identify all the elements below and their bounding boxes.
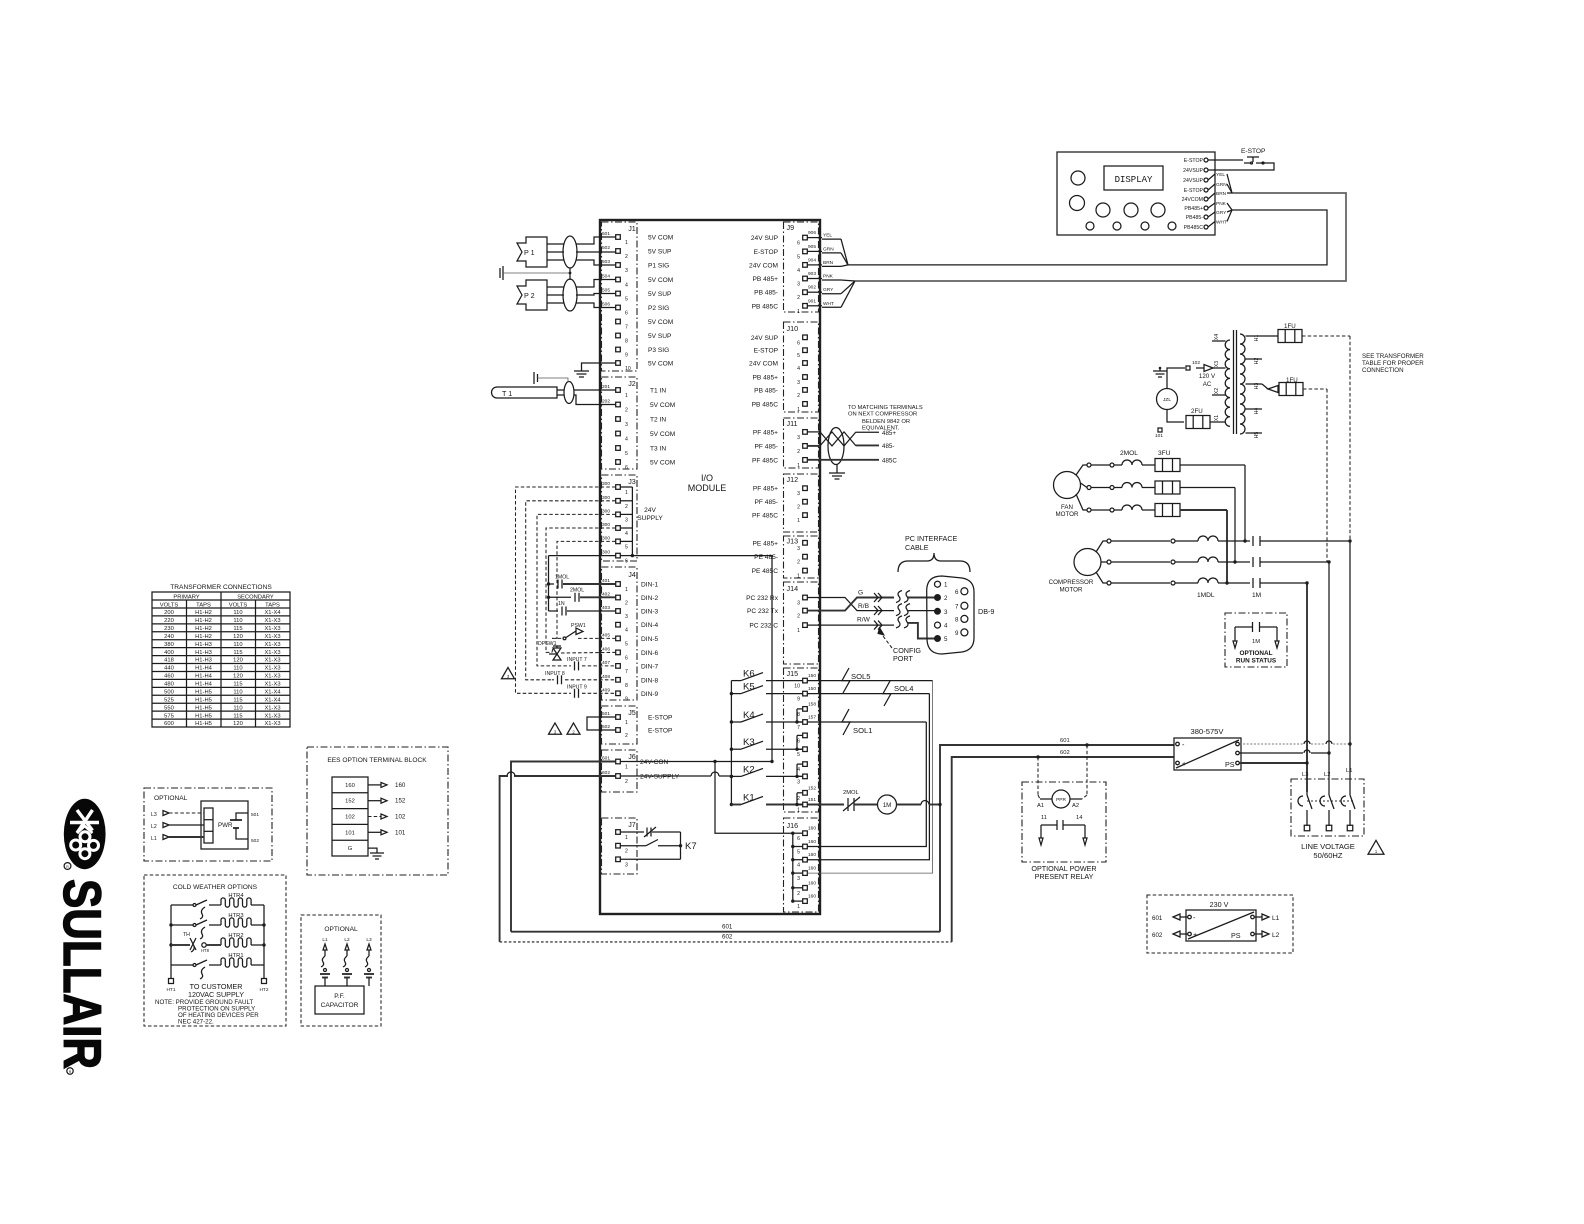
wire 602 from J6-2 (left drop) — [514, 775, 616, 777]
connector J14 — [784, 582, 819, 664]
svg-text:X1-X4: X1-X4 — [264, 697, 281, 703]
PS output to L1 — [1240, 743, 1304, 745]
svg-text:OPTIONAL: OPTIONAL — [154, 795, 188, 802]
wire 601 from J6-1 (left drop) — [511, 762, 616, 932]
svg-text:160: 160 — [808, 839, 816, 845]
svg-text:6: 6 — [797, 836, 800, 842]
svg-text:2: 2 — [797, 891, 800, 897]
svg-text:230 V: 230 V — [1210, 900, 1229, 909]
connector J6 — [602, 750, 638, 792]
svg-text:501: 501 — [251, 812, 259, 818]
svg-text:CAPACITOR: CAPACITOR — [321, 1002, 359, 1009]
svg-text:X1: X1 — [1214, 415, 1220, 421]
temperature probe T1 — [492, 387, 557, 398]
svg-text:DIN-2: DIN-2 — [641, 595, 659, 602]
svg-text:PE 485+: PE 485+ — [753, 540, 779, 547]
svg-text:PS: PS — [1231, 931, 1241, 940]
connector J7 — [602, 818, 638, 874]
emblem registered mark — [64, 863, 71, 870]
svg-text:TABLE FOR PROPER: TABLE FOR PROPER — [1362, 360, 1424, 367]
svg-text:L2: L2 — [151, 824, 157, 830]
svg-text:220: 220 — [164, 618, 174, 624]
svg-text:INPUT 7: INPUT 7 — [567, 657, 587, 663]
svg-text:PF 485C: PF 485C — [752, 457, 778, 464]
svg-text:160: 160 — [808, 826, 816, 832]
svg-text:J2: J2 — [628, 379, 636, 388]
svg-text:2: 2 — [797, 449, 800, 455]
svg-text:150: 150 — [808, 673, 816, 679]
svg-text:PPR: PPR — [1056, 797, 1066, 803]
connector J13 — [784, 536, 819, 578]
line voltage box — [1291, 779, 1364, 836]
svg-text:1FU: 1FU — [1286, 377, 1298, 384]
svg-text:SUPPLY: SUPPLY — [637, 515, 663, 522]
svg-text:2: 2 — [625, 408, 628, 414]
svg-text:J4: J4 — [628, 570, 636, 579]
svg-text:24V-CON: 24V-CON — [640, 759, 668, 766]
svg-text:E-STOP: E-STOP — [648, 715, 673, 722]
svg-text:X1-X4: X1-X4 — [264, 610, 281, 616]
svg-text:408: 408 — [602, 674, 610, 680]
wires P2 to J1 pins 4-6 — [576, 280, 616, 288]
transformer secondary winding (X) — [1225, 340, 1230, 426]
svg-text:PNK: PNK — [1216, 201, 1227, 207]
PWR capacitor — [230, 819, 242, 821]
svg-text:10: 10 — [625, 366, 631, 372]
svg-text:5: 5 — [797, 850, 800, 856]
svg-text:PRIMARY: PRIMARY — [173, 595, 199, 601]
svg-text:7: 7 — [625, 669, 628, 675]
svg-text:110: 110 — [233, 618, 242, 624]
svg-text:L1: L1 — [151, 836, 157, 842]
svg-text:24VSUP: 24VSUP — [1183, 178, 1203, 184]
svg-text:TAPS: TAPS — [196, 603, 211, 609]
svg-text:300: 300 — [602, 522, 610, 528]
svg-text:2: 2 — [944, 595, 948, 602]
PF capacitor block — [315, 986, 364, 1014]
svg-text:DIN-5: DIN-5 — [641, 636, 659, 643]
svg-text:DB-9: DB-9 — [978, 607, 994, 616]
svg-text:6: 6 — [625, 655, 628, 661]
shield ground — [836, 465, 838, 474]
svg-text:PORT: PORT — [893, 654, 913, 663]
svg-text:H1-H2: H1-H2 — [195, 626, 212, 632]
svg-text:9: 9 — [625, 353, 628, 359]
svg-text:K3: K3 — [743, 737, 755, 748]
svg-text:905: 905 — [808, 244, 816, 250]
svg-text:4: 4 — [625, 283, 628, 289]
svg-text:P1 SIG: P1 SIG — [648, 263, 669, 270]
contact 1M (DIN-3) — [549, 610, 559, 612]
svg-text:2MOL: 2MOL — [1120, 450, 1138, 457]
run status contact 1M — [1235, 626, 1253, 628]
svg-text:PF 485+: PF 485+ — [753, 429, 778, 436]
svg-text:TAPS: TAPS — [265, 603, 280, 609]
phase L3 drop — [1306, 583, 1308, 792]
svg-text:7: 7 — [625, 325, 628, 331]
svg-text:PF 485-: PF 485- — [755, 443, 778, 450]
svg-text:485C: 485C — [882, 458, 897, 465]
svg-text:X1-X3: X1-X3 — [264, 642, 280, 648]
svg-text:1: 1 — [625, 240, 628, 246]
svg-text:2: 2 — [625, 733, 628, 739]
contact 2MOL (K1 circuit) — [808, 804, 845, 806]
wire 601 bottom rail — [511, 931, 940, 933]
svg-text:DIN-8: DIN-8 — [641, 677, 659, 684]
wire to DB9 pin3 — [908, 610, 938, 612]
svg-text:101: 101 — [1155, 433, 1163, 439]
svg-text:9: 9 — [955, 630, 959, 637]
svg-text:P2 SIG: P2 SIG — [648, 305, 669, 312]
wire 601 right riser to PS — [940, 745, 1174, 932]
svg-text:4: 4 — [625, 437, 628, 443]
svg-text:380-575V: 380-575V — [1191, 727, 1225, 736]
svg-text:230: 230 — [164, 626, 174, 632]
svg-text:1: 1 — [797, 463, 800, 469]
PS output to L2 — [1240, 752, 1304, 754]
svg-text:H1-H3: H1-H3 — [195, 642, 212, 648]
svg-text:J13: J13 — [787, 537, 799, 546]
svg-text:GRY: GRY — [823, 287, 834, 293]
PPR coil — [1052, 790, 1070, 808]
wire J3-6 left to input contact bus — [549, 555, 616, 557]
svg-text:R/W: R/W — [857, 617, 871, 624]
svg-text:1MOL: 1MOL — [555, 575, 569, 581]
svg-text:X1-X3: X1-X3 — [264, 682, 280, 688]
svg-text:120 V: 120 V — [1199, 373, 1216, 380]
svg-text:H2: H2 — [1254, 358, 1260, 365]
display cable bundle A — [848, 210, 1327, 265]
wires P1 to J1 pins 1-3 — [576, 237, 616, 244]
svg-text:5V SUP: 5V SUP — [648, 249, 672, 256]
wire 485C — [808, 459, 880, 461]
compressor motor leads — [1096, 541, 1107, 552]
svg-text:1: 1 — [797, 628, 800, 634]
fuse 2FU — [1167, 410, 1184, 423]
svg-text:CONNECTION: CONNECTION — [1362, 367, 1404, 374]
svg-text:E-STOP: E-STOP — [754, 348, 779, 355]
svg-text:5V COM: 5V COM — [650, 402, 675, 409]
svg-text:202: 202 — [602, 399, 610, 405]
svg-text:PB485-: PB485- — [1186, 215, 1204, 221]
svg-text:NEC 427-22.: NEC 427-22. — [178, 1019, 214, 1026]
svg-text:152: 152 — [808, 785, 816, 791]
svg-text:120: 120 — [233, 721, 243, 727]
svg-text:902: 902 — [808, 285, 816, 291]
svg-text:J6: J6 — [628, 752, 636, 761]
svg-text:11: 11 — [1041, 815, 1047, 821]
svg-text:H1-H5: H1-H5 — [195, 713, 212, 719]
svg-text:504: 504 — [602, 274, 610, 280]
svg-text:HT2: HT2 — [259, 987, 268, 993]
svg-text:LINE VOLTAGE: LINE VOLTAGE — [1301, 842, 1355, 851]
solenoid SOL1 — [808, 721, 927, 723]
relay contact K7 — [621, 831, 645, 833]
svg-text:6: 6 — [797, 241, 800, 247]
PPR box — [1022, 782, 1106, 862]
svg-text:PB 485-: PB 485- — [754, 290, 778, 297]
svg-text:1: 1 — [797, 407, 800, 413]
svg-text:H1-H2: H1-H2 — [195, 618, 212, 624]
svg-text:3: 3 — [625, 268, 628, 274]
fan motor — [1054, 472, 1081, 499]
svg-text:101: 101 — [345, 830, 355, 836]
svg-text:240: 240 — [164, 634, 174, 640]
svg-text:E-STOP: E-STOP — [648, 728, 673, 735]
svg-text:J12: J12 — [787, 475, 799, 484]
PWR module — [201, 801, 248, 849]
svg-text:151: 151 — [808, 797, 816, 803]
svg-text:115: 115 — [233, 713, 242, 719]
HT2 terminal — [263, 965, 265, 979]
svg-text:5: 5 — [625, 544, 628, 550]
svg-text:CABLE: CABLE — [905, 543, 929, 552]
svg-text:HT1: HT1 — [166, 987, 175, 993]
svg-text:525: 525 — [164, 697, 174, 703]
svg-text:1: 1 — [625, 720, 628, 726]
svg-text:115: 115 — [233, 682, 242, 688]
DB9 connector outline — [927, 576, 974, 654]
svg-text:5V SUP: 5V SUP — [648, 333, 672, 340]
svg-text:SOL1: SOL1 — [853, 726, 872, 735]
svg-text:1: 1 — [625, 393, 628, 399]
display panel box — [1057, 152, 1215, 235]
svg-text:4: 4 — [625, 628, 628, 634]
svg-text:PC 232 Rx: PC 232 Rx — [746, 595, 779, 602]
svg-text:3: 3 — [944, 609, 948, 616]
svg-text:480: 480 — [164, 682, 174, 688]
svg-text:506: 506 — [602, 302, 610, 308]
svg-text:904: 904 — [808, 257, 816, 263]
svg-text:PB 485+: PB 485+ — [753, 375, 779, 382]
svg-text:SOL5: SOL5 — [851, 672, 870, 681]
svg-text:102: 102 — [345, 815, 355, 821]
svg-text:300: 300 — [602, 481, 610, 487]
svg-text:L3: L3 — [1302, 772, 1308, 778]
svg-text:9: 9 — [797, 697, 800, 703]
svg-text:INPUT 9: INPUT 9 — [567, 685, 587, 691]
svg-text:OPTIONAL: OPTIONAL — [324, 926, 358, 933]
svg-text:G: G — [858, 590, 863, 597]
svg-text:GRN: GRN — [1216, 182, 1227, 188]
solenoid SOL5 — [808, 680, 933, 682]
warning triangle 3 (J5) — [549, 723, 562, 734]
svg-text:550: 550 — [164, 705, 174, 711]
svg-text:2: 2 — [797, 295, 800, 301]
EES option box — [307, 747, 448, 875]
cable brace — [898, 553, 970, 572]
svg-text:TRANSFORMER CONNECTIONS: TRANSFORMER CONNECTIONS — [170, 584, 272, 591]
svg-text:TH: TH — [183, 932, 190, 938]
J11 twisted pair to next compressor — [808, 431, 821, 433]
svg-text:G: G — [348, 846, 353, 852]
SOL1 return wire — [808, 722, 927, 847]
svg-text:5: 5 — [797, 752, 800, 758]
svg-text:505: 505 — [602, 288, 610, 294]
svg-text:PB 485+: PB 485+ — [753, 276, 779, 283]
connector J11 — [784, 418, 819, 468]
svg-text:3: 3 — [797, 435, 800, 441]
svg-text:1N: 1N — [558, 601, 565, 607]
svg-text:J5: J5 — [628, 708, 636, 717]
svg-text:JZL: JZL — [1163, 397, 1171, 403]
svg-text:1: 1 — [625, 835, 628, 841]
line voltage disconnect switches — [1306, 792, 1308, 795]
wire 24V-SUPPLY J6-2 to K bus — [621, 775, 712, 777]
svg-text:K5: K5 — [743, 682, 755, 693]
wire JZL to X3 with 102 — [1167, 368, 1185, 389]
svg-text:8: 8 — [955, 616, 959, 623]
svg-text:4: 4 — [797, 268, 800, 274]
connector J4 — [602, 567, 638, 700]
svg-text:P 1: P 1 — [524, 248, 535, 257]
overload 1MDL — [1111, 540, 1170, 542]
dashed drop 1FU to L2 — [1326, 389, 1328, 562]
svg-text:120VAC SUPPLY: 120VAC SUPPLY — [188, 990, 244, 999]
svg-text:2: 2 — [797, 393, 800, 399]
svg-text:500: 500 — [164, 689, 174, 695]
HT1 terminal — [170, 965, 172, 979]
230V option box — [1147, 895, 1293, 953]
wire J3-6 to J6-1 (24V to con) — [632, 556, 772, 762]
svg-text:L2: L2 — [1272, 932, 1280, 939]
optional run status box — [1225, 613, 1287, 667]
svg-text:DIN-7: DIN-7 — [641, 663, 659, 670]
svg-text:X1-X3: X1-X3 — [264, 666, 280, 672]
svg-text:602: 602 — [1152, 932, 1163, 939]
svg-text:PE 485C: PE 485C — [752, 568, 779, 575]
svg-text:H1-H2: H1-H2 — [195, 634, 212, 640]
fuse 3FU a — [1155, 459, 1180, 472]
svg-text:115: 115 — [233, 626, 242, 632]
svg-text:K7: K7 — [685, 841, 697, 852]
svg-text:DISPLAY: DISPLAY — [1115, 175, 1153, 185]
svg-text:PS: PS — [1225, 760, 1235, 769]
svg-text:601: 601 — [1152, 915, 1163, 922]
svg-text:PC 232 C: PC 232 C — [749, 623, 778, 630]
svg-text:H1-H3: H1-H3 — [195, 650, 212, 656]
svg-text:5: 5 — [625, 297, 628, 303]
svg-text:1FU: 1FU — [1284, 323, 1296, 330]
svg-text:160: 160 — [808, 894, 816, 900]
svg-text:1MDL: 1MDL — [1197, 592, 1215, 599]
PPR tap from 601 — [1086, 745, 1088, 795]
svg-text:OPTIONAL: OPTIONAL — [1239, 650, 1272, 657]
wordmark registered mark — [67, 1068, 73, 1074]
svg-text:H1-H4: H1-H4 — [195, 674, 213, 680]
svg-text:1M: 1M — [883, 802, 892, 809]
svg-text:2: 2 — [625, 504, 628, 510]
svg-text:9: 9 — [625, 696, 628, 702]
warning triangle 1 (line voltage) — [1368, 840, 1384, 854]
svg-text:2: 2 — [625, 601, 628, 607]
svg-text:COMPRESSOR: COMPRESSOR — [1049, 579, 1094, 586]
svg-text:2MOL: 2MOL — [843, 790, 860, 796]
svg-text:5: 5 — [797, 254, 800, 260]
svg-text:1: 1 — [797, 808, 800, 814]
svg-text:3: 3 — [797, 491, 800, 497]
svg-text:J1: J1 — [628, 224, 636, 233]
dashed drop 1FU to L1 — [1349, 336, 1351, 541]
svg-text:WHT: WHT — [823, 301, 834, 307]
svg-text:DIN-4: DIN-4 — [641, 622, 659, 629]
svg-text:P 2: P 2 — [524, 291, 535, 300]
DB9 pins 6-9 — [961, 588, 968, 595]
svg-text:DIN-1: DIN-1 — [641, 582, 659, 589]
svg-text:5V COM: 5V COM — [650, 431, 675, 438]
svg-text:BRN: BRN — [1216, 191, 1227, 197]
heater switches — [193, 904, 196, 907]
svg-text:5: 5 — [625, 451, 628, 457]
svg-text:YEL: YEL — [1216, 172, 1225, 178]
svg-text:160: 160 — [395, 782, 406, 789]
svg-text:X1-X3: X1-X3 — [264, 618, 280, 624]
heater right bus — [263, 905, 265, 965]
svg-text:DIN-9: DIN-9 — [641, 691, 659, 698]
svg-text:3: 3 — [625, 422, 628, 428]
svg-text:160: 160 — [808, 866, 816, 872]
contactor contacts 1M — [1252, 536, 1254, 546]
optional power box — [144, 788, 272, 861]
svg-text:PRESENT RELAY: PRESENT RELAY — [1035, 872, 1094, 881]
svg-text:1M: 1M — [1252, 639, 1260, 645]
svg-text:L1: L1 — [1272, 915, 1280, 922]
P1 shield — [563, 236, 577, 268]
svg-text:901: 901 — [808, 298, 816, 304]
connector J9 — [784, 222, 819, 312]
svg-text:ON NEXT COMPRESSOR: ON NEXT COMPRESSOR — [848, 412, 917, 418]
svg-text:DIN-3: DIN-3 — [641, 609, 659, 616]
svg-text:2: 2 — [625, 849, 628, 855]
svg-text:501: 501 — [602, 231, 610, 237]
svg-text:K1: K1 — [743, 793, 755, 804]
svg-text:2: 2 — [625, 779, 628, 785]
svg-text:MOTOR: MOTOR — [1060, 587, 1083, 594]
EES ground — [368, 848, 377, 853]
svg-text:2FU: 2FU — [1191, 408, 1203, 415]
svg-text:50/60HZ: 50/60HZ — [1313, 851, 1342, 860]
svg-text:120: 120 — [233, 634, 243, 640]
svg-text:VOLTS: VOLTS — [160, 603, 179, 609]
svg-text:VOLTS: VOLTS — [229, 603, 248, 609]
svg-text:110: 110 — [233, 642, 242, 648]
connector J16 — [784, 818, 819, 912]
svg-text:300: 300 — [602, 550, 610, 556]
svg-text:4: 4 — [625, 531, 628, 537]
svg-text:J7: J7 — [628, 820, 636, 829]
J15 pin pair jumpers — [796, 709, 798, 722]
svg-text:SULLAIR: SULLAIR — [52, 879, 111, 1069]
svg-text:T1 IN: T1 IN — [650, 388, 666, 395]
svg-text:2: 2 — [797, 560, 800, 566]
svg-text:110: 110 — [233, 666, 242, 672]
svg-text:PF 485C: PF 485C — [752, 513, 778, 520]
svg-text:X1-X3: X1-X3 — [264, 705, 280, 711]
230V output L2 — [1255, 933, 1263, 935]
svg-text:160: 160 — [808, 880, 816, 886]
svg-text:2: 2 — [797, 614, 800, 620]
svg-text:4: 4 — [797, 366, 800, 372]
svg-text:14: 14 — [1076, 815, 1083, 821]
svg-text:L3: L3 — [366, 937, 372, 943]
svg-text:PB 485C: PB 485C — [752, 401, 779, 408]
svg-text:115: 115 — [233, 650, 242, 656]
connector J12 — [784, 474, 819, 532]
svg-text:X2: X2 — [1214, 388, 1220, 394]
J16 output bus — [792, 833, 794, 901]
svg-text:575: 575 — [164, 713, 174, 719]
transformer primary winding (H) — [1240, 334, 1245, 434]
